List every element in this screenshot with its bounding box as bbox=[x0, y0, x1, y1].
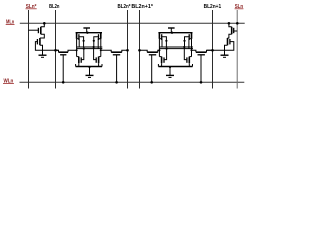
left compare stack: wire from ML bbox=[41, 23, 45, 27]
wire VSS stem to ground bbox=[169, 67, 171, 76]
access transistor A1 gate bar bbox=[60, 54, 66, 56]
wire N-right drain stub bbox=[99, 56, 101, 58]
wire Q2 gate to storage node bbox=[35, 42, 58, 51]
node dot P-right gate bbox=[93, 40, 95, 42]
wire storage node right vertical bbox=[191, 39, 193, 57]
access transistor A3 gate bar bbox=[149, 54, 156, 56]
node dot storage node C on access wire bbox=[158, 49, 160, 51]
node dot N-right gate bbox=[183, 46, 185, 48]
wire P-right gate lead bbox=[185, 37, 190, 49]
wire cross-couple upper (cell 2) bbox=[159, 46, 193, 48]
node A2 gate on WLn (junction dot) bbox=[115, 81, 118, 84]
access transistor A2 channel bbox=[111, 51, 122, 53]
transistor Q1 gate bar bbox=[37, 28, 39, 33]
transistor N-left channel (cell 2) bbox=[161, 57, 163, 64]
node dot P-right gate bbox=[183, 40, 185, 42]
node dot P-left gate bbox=[165, 40, 167, 42]
transistor Q3 (search, gate to SLn) channel bbox=[231, 27, 233, 34]
node on bit line (junction dot, A1) bbox=[54, 49, 57, 52]
wire P-left gate lead bbox=[162, 37, 167, 47]
wire VDD stem bbox=[170, 28, 172, 33]
wire N-right gate lead to cross-couple bbox=[184, 47, 187, 60]
bit line BL2n+1* (vertical) bbox=[139, 10, 141, 89]
node VDD rail junction bbox=[86, 32, 88, 34]
transistor P-left channel (cell 2) bbox=[158, 33, 160, 39]
access transistor A2 gate bar bbox=[113, 54, 120, 56]
transistor P-left gate bar bbox=[78, 34, 80, 40]
node dot P-left gate bbox=[83, 40, 85, 42]
transistor N-right channel (cell 2) bbox=[188, 57, 190, 64]
node dot N-left gate bbox=[166, 48, 168, 50]
transistor N-left gate bar bbox=[163, 57, 165, 62]
match line MLn (horizontal rail) bbox=[20, 22, 245, 24]
cell 1: VDD supply bar bbox=[83, 27, 90, 29]
node VDD rail junction bbox=[171, 32, 173, 34]
node on ML (junction dot) bbox=[43, 22, 46, 25]
wire P-left drain stub (cell 1) bbox=[77, 39, 80, 47]
transistor N-left channel (cell 1) bbox=[78, 57, 80, 64]
svg-text:BL2n+1: BL2n+1 bbox=[204, 4, 222, 10]
wire storage node right vertical bbox=[100, 39, 102, 57]
search line SLn (vertical) bbox=[236, 10, 238, 89]
transistor Q2 gate bar bbox=[36, 39, 38, 44]
VSS bar (cell 2) bbox=[158, 66, 192, 68]
transistor N-left gate bar bbox=[80, 57, 82, 62]
access transistor A4 channel bbox=[196, 51, 207, 53]
node on bit line (junction dot, A4) bbox=[211, 49, 214, 52]
wire access transistor A3 to storage node bbox=[158, 50, 160, 52]
node on bit line (junction dot, A2) bbox=[126, 49, 129, 52]
wire N-right gate lead to cross-couple bbox=[94, 47, 97, 60]
transistor Q4 (compare, gate from storage node) channel bbox=[227, 38, 229, 45]
wire bit line to access transistor A1 bbox=[56, 50, 59, 52]
right compare stack: wire from ML bbox=[229, 23, 232, 27]
VSS bar (cell 1) bbox=[76, 66, 102, 68]
svg-text:BL2n: BL2n bbox=[49, 4, 59, 10]
wire N-right source bbox=[188, 63, 190, 66]
wire A3 gate to WLn bbox=[151, 55, 153, 83]
node dot N-left gate bbox=[83, 48, 85, 50]
wire VDD rail bbox=[76, 32, 102, 34]
transistor P-right channel (cell 1) bbox=[100, 33, 102, 39]
wire cross-couple lower (cell 2) bbox=[159, 48, 193, 50]
transistor P-right gate bar bbox=[188, 34, 190, 40]
cell 2: VDD supply bar bbox=[168, 27, 175, 29]
ground (left stack) bbox=[39, 54, 47, 56]
wire Q4 source down bbox=[225, 45, 228, 55]
wire P-left drain stub (cell 2) bbox=[159, 39, 162, 47]
label SLn bbox=[235, 4, 244, 10]
node A3 gate on WLn (junction dot) bbox=[150, 81, 153, 84]
wire access transistor A2 to storage node bbox=[101, 50, 111, 52]
wire N-left drain stub bbox=[159, 56, 161, 58]
node dot N-right gate bbox=[93, 46, 95, 48]
wire N-right drain stub bbox=[189, 56, 191, 58]
node dot storage node B on access wire bbox=[100, 49, 102, 51]
node A4 gate on WLn (junction dot) bbox=[200, 81, 203, 84]
access transistor A1 channel bbox=[59, 51, 69, 53]
wire storage node left vertical bbox=[158, 39, 160, 57]
svg-text:BL2n+1*: BL2n+1* bbox=[131, 4, 154, 10]
wire VSS stem to ground bbox=[89, 67, 91, 76]
wire P-right drain stub (cell 2) bbox=[189, 39, 192, 49]
wire VDD stem bbox=[86, 28, 88, 33]
transistor N-right gate bar bbox=[95, 57, 97, 62]
wire storage node left vertical bbox=[76, 39, 78, 57]
node A1 gate on WLn (junction dot) bbox=[62, 81, 65, 84]
bit line BL2n (vertical) bbox=[55, 10, 57, 89]
wire P-right gate lead bbox=[94, 37, 99, 49]
node dot VSS stem bbox=[169, 66, 171, 68]
wire A2 gate to WLn bbox=[116, 55, 118, 83]
wire P-right drain stub (cell 1) bbox=[98, 39, 101, 49]
wire cross-couple upper (cell 1) bbox=[77, 46, 103, 48]
node dot storage node A on access wire bbox=[76, 49, 78, 51]
label SLn* bbox=[26, 4, 38, 10]
transistor Q2 (compare, gate from storage node) channel bbox=[39, 38, 41, 45]
wire P-left gate lead bbox=[79, 37, 84, 47]
bit line BL2n+1 (vertical) bbox=[212, 10, 214, 89]
svg-text:BL2n*: BL2n* bbox=[118, 4, 132, 10]
transistor P-left channel (cell 1) bbox=[76, 33, 78, 39]
wire Q2 source down bbox=[40, 45, 43, 55]
access transistor A4 gate bar bbox=[198, 54, 205, 56]
wire N-left gate lead to cross-couple bbox=[81, 49, 84, 60]
wire bit line to access transistor A4 bbox=[207, 50, 213, 52]
wire VDD rail bbox=[158, 32, 192, 34]
VSS bar end feet bbox=[157, 64, 159, 67]
wire access transistor A1 to storage node bbox=[68, 50, 77, 52]
label WLn bbox=[3, 79, 14, 85]
transistor P-right gate bar bbox=[98, 34, 100, 40]
bit line BL2n* (vertical) bbox=[127, 10, 129, 89]
wire access transistor A4 to storage node bbox=[192, 50, 196, 52]
wire N-left source bbox=[161, 63, 163, 66]
ground (right stack) bbox=[221, 54, 229, 56]
search line SLn* (vertical) bbox=[28, 10, 30, 89]
node on ML at SLn (junction dot) bbox=[236, 22, 239, 25]
transistor N-right channel (cell 1) bbox=[98, 57, 100, 64]
transistor Q4 gate bar bbox=[229, 39, 231, 44]
wire Q3 source to Q4 drain bbox=[228, 34, 232, 38]
access transistor A3 channel bbox=[147, 51, 158, 53]
wire A4 gate to WLn bbox=[200, 55, 202, 83]
transistor N-right gate bar bbox=[186, 57, 188, 62]
wire Q1 source to Q2 drain bbox=[40, 34, 44, 38]
wire Q1 gate to SLn* bbox=[29, 29, 39, 31]
transistor Q1 (search, gate to SLn*) channel bbox=[40, 27, 42, 34]
wire N-left drain stub bbox=[77, 56, 79, 58]
node on bit line (junction dot, A3) bbox=[138, 49, 141, 52]
wire A1 gate to WLn bbox=[62, 55, 64, 83]
node on ML (junction dot) bbox=[228, 22, 231, 25]
wire bit line to access transistor A3 bbox=[140, 50, 148, 52]
wire Q3 gate to SLn bbox=[234, 30, 238, 32]
word line WLn (horizontal rail) bbox=[20, 81, 245, 83]
wire Q4 gate to storage node bbox=[207, 42, 234, 51]
wire cross-couple lower (cell 1) bbox=[77, 48, 103, 50]
wire N-left gate lead to cross-couple bbox=[164, 49, 167, 60]
ground (cell 2) bbox=[166, 74, 174, 76]
node dot VSS stem bbox=[89, 66, 91, 68]
wire N-left source bbox=[78, 63, 80, 66]
transistor P-right channel (cell 2) bbox=[191, 33, 193, 39]
wire bit line to access transistor A2 bbox=[122, 50, 128, 52]
wire N-right source bbox=[98, 63, 100, 66]
VSS bar end feet bbox=[75, 64, 77, 67]
transistor P-left gate bar bbox=[161, 34, 163, 40]
node dot storage node D on access wire bbox=[190, 49, 192, 51]
ground (cell 1) bbox=[86, 74, 94, 76]
label MLn bbox=[6, 20, 15, 26]
transistor Q3 gate bar bbox=[233, 28, 235, 33]
